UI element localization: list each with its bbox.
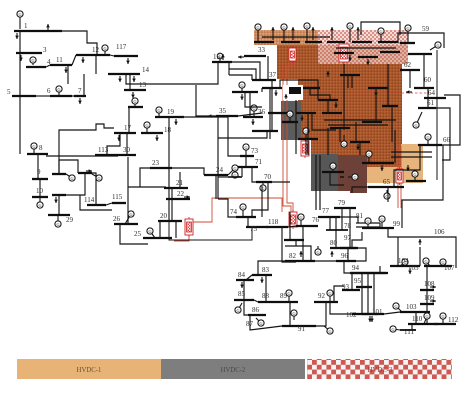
wire 94-101b bbox=[373, 273, 375, 314]
generator bus116 bbox=[315, 246, 321, 255]
HVDC converter box3 bbox=[301, 139, 309, 158]
HVDC zone 1 tan block right bbox=[367, 144, 423, 183]
wire 70-69 bbox=[272, 181, 290, 183]
load bus13 bbox=[131, 92, 135, 98]
svg-text:G: G bbox=[18, 12, 21, 17]
bus 37 bbox=[252, 79, 276, 81]
svg-text:112: 112 bbox=[448, 316, 459, 324]
svg-text:G: G bbox=[157, 108, 160, 113]
wire 109-110 bbox=[426, 304, 428, 324]
bus 47 bbox=[318, 99, 338, 101]
svg-text:G: G bbox=[441, 314, 444, 319]
bus 65 bbox=[368, 186, 404, 188]
wire 7-12 bbox=[83, 74, 85, 96]
svg-text:24: 24 bbox=[216, 166, 224, 174]
bus 118 bbox=[266, 226, 288, 228]
svg-text:G: G bbox=[436, 43, 439, 48]
bus 1 bbox=[14, 30, 40, 32]
svg-text:11: 11 bbox=[56, 56, 63, 64]
load top up bbox=[311, 27, 315, 40]
wire 64b2 bbox=[391, 106, 393, 142]
load 109 r bbox=[430, 299, 436, 303]
svg-text:7: 7 bbox=[78, 87, 82, 95]
wire 4-11 bbox=[46, 65, 50, 67]
wire 56-59 loop bbox=[398, 33, 444, 48]
generator bus72 bbox=[232, 172, 240, 178]
bus 52p bbox=[334, 52, 354, 54]
load bus15 up bbox=[221, 54, 225, 60]
wire 33-37 bbox=[267, 56, 269, 80]
wire 60-61 bbox=[427, 88, 429, 108]
bus tanr bbox=[406, 180, 426, 182]
bus 93 bbox=[342, 289, 360, 291]
wire 31-32 bbox=[59, 160, 78, 174]
svg-text:G: G bbox=[32, 144, 35, 149]
generator g46 bbox=[304, 23, 310, 42]
svg-text:G: G bbox=[414, 123, 417, 128]
svg-text:G: G bbox=[282, 25, 285, 30]
bus 46 bbox=[296, 112, 316, 114]
svg-text:18: 18 bbox=[164, 126, 172, 134]
load bus35 l bbox=[208, 114, 214, 118]
svg-text:6: 6 bbox=[47, 87, 51, 95]
svg-text:103: 103 bbox=[406, 303, 417, 311]
wire 27-28 bbox=[58, 195, 60, 215]
bus 43 bbox=[262, 87, 282, 89]
wire 74 left long bbox=[218, 199, 236, 217]
wire 69-116 via box bbox=[289, 212, 291, 240]
svg-text:HVDC-3: HVDC-3 bbox=[368, 367, 394, 374]
svg-text:15: 15 bbox=[213, 53, 221, 61]
load top up bbox=[291, 27, 295, 40]
load s5 bbox=[326, 71, 330, 77]
svg-text:82: 82 bbox=[289, 252, 297, 260]
wire 11-12 bbox=[72, 55, 76, 65]
bus 22 bbox=[166, 198, 190, 200]
generator g55 bbox=[405, 25, 411, 42]
wire 30-26 v bbox=[127, 187, 129, 224]
svg-text:20: 20 bbox=[160, 212, 168, 220]
wire 17-31 staircase bbox=[59, 124, 114, 174]
bus 113 bbox=[95, 154, 118, 156]
bus 21 bbox=[164, 187, 188, 189]
svg-text:G: G bbox=[133, 99, 136, 104]
load bus84 bbox=[240, 282, 244, 288]
HVDC converter box6 bbox=[396, 167, 403, 185]
wire 35-37 bbox=[238, 113, 262, 116]
svg-text:12: 12 bbox=[92, 46, 100, 54]
load bus102 bbox=[368, 316, 372, 322]
svg-text:G: G bbox=[259, 321, 262, 326]
wire 30-17 bbox=[126, 133, 128, 155]
bus 107 bbox=[424, 265, 452, 267]
bus 38 bbox=[252, 130, 278, 132]
generator bus105 bbox=[423, 258, 430, 266]
bus 34 bbox=[232, 91, 258, 93]
wire 12-117 bbox=[110, 55, 114, 56]
svg-text:25: 25 bbox=[134, 230, 142, 238]
bus 20 bbox=[158, 220, 182, 222]
bus 2 bbox=[40, 30, 62, 32]
svg-text:G: G bbox=[240, 83, 243, 88]
generator bus111 bbox=[390, 326, 400, 332]
svg-text:73: 73 bbox=[251, 147, 259, 155]
svg-text:75: 75 bbox=[250, 225, 258, 233]
wire 2-12 bbox=[58, 31, 97, 55]
svg-text:86: 86 bbox=[252, 306, 260, 314]
generator bus90 bbox=[291, 310, 297, 320]
bus 79 bbox=[334, 207, 356, 209]
bus 14 bbox=[108, 73, 140, 75]
generator bus112 bbox=[440, 313, 446, 324]
generator bus110g bbox=[424, 313, 430, 324]
wire 73 left bbox=[218, 117, 240, 156]
generator bus32 bbox=[92, 174, 102, 181]
bus 102 bbox=[352, 313, 378, 315]
HVDC zone 3 pink checker band bbox=[318, 30, 408, 64]
generator g42 bbox=[281, 24, 287, 42]
wire 98 drop bbox=[344, 261, 352, 273]
wire 115-27 bbox=[80, 195, 112, 210]
load p1 bbox=[348, 55, 352, 61]
wire 34-36 bbox=[249, 92, 251, 117]
svg-text:G: G bbox=[241, 205, 244, 210]
wire 103-110 bbox=[415, 312, 417, 324]
wire 75-118 bbox=[266, 226, 268, 228]
svg-text:G: G bbox=[244, 145, 247, 150]
generator bus6 bbox=[56, 86, 62, 96]
wire 100 drop bbox=[397, 237, 399, 266]
svg-text:14: 14 bbox=[142, 66, 150, 74]
wire 80 double b bbox=[356, 226, 380, 228]
load top up bbox=[356, 27, 360, 40]
svg-text:G: G bbox=[57, 87, 60, 92]
wire 114-115 bbox=[106, 203, 112, 205]
bus 94b bbox=[350, 272, 388, 274]
bus 53 bbox=[340, 74, 360, 76]
wire 26-25 bbox=[120, 224, 148, 244]
bus 16 bbox=[128, 106, 143, 108]
wire 76-118 down bbox=[282, 227, 296, 262]
wire 72-24 long bbox=[218, 176, 228, 178]
wire 69 pair b bbox=[319, 155, 321, 210]
svg-text:36: 36 bbox=[258, 108, 266, 116]
wire 84-85 bbox=[243, 280, 245, 300]
generator bus103 bbox=[393, 303, 402, 312]
wire 35-center bbox=[196, 85, 216, 116]
generator bus65g bbox=[384, 190, 390, 199]
white cutout in sienna bbox=[283, 85, 303, 100]
bus 82 bbox=[285, 260, 315, 262]
svg-text:G: G bbox=[342, 142, 345, 147]
HVDC zone maroon overlap patch bbox=[338, 155, 367, 193]
bus 69 bbox=[322, 171, 344, 173]
bus 92 bbox=[314, 301, 338, 303]
svg-text:114: 114 bbox=[84, 196, 95, 204]
load bus100 bbox=[408, 268, 412, 274]
generator bus8 bbox=[31, 143, 37, 154]
generator bus26 bbox=[125, 211, 134, 224]
wire 34-37 bbox=[245, 92, 262, 107]
bus 88-89 bbox=[258, 301, 298, 303]
wire 20-21 v bbox=[175, 221, 177, 238]
generator bus46 bbox=[303, 128, 309, 142]
wire 64 vert bbox=[394, 130, 396, 163]
legend HVDC-1 tan bbox=[17, 359, 161, 379]
bus 111 bbox=[400, 329, 416, 331]
load s1 bbox=[274, 90, 278, 96]
wire 15-37a bbox=[229, 62, 260, 80]
HVDC zone 2 gray patch B bbox=[311, 154, 338, 191]
wire 65-bottom bbox=[387, 187, 389, 202]
bus 68v bbox=[340, 176, 344, 178]
svg-text:G: G bbox=[379, 29, 382, 34]
generator bus12 bbox=[102, 45, 108, 55]
wire 3-5 bbox=[19, 53, 21, 96]
wire s7 bbox=[375, 88, 377, 122]
svg-text:G: G bbox=[353, 175, 356, 180]
bus 49t bbox=[327, 41, 345, 43]
wire 97-99 bbox=[352, 232, 362, 248]
bus 61 bbox=[418, 107, 436, 109]
wire s5 bbox=[339, 128, 341, 142]
bus 103 bbox=[400, 311, 430, 313]
wire 101-94 bbox=[367, 273, 369, 314]
wire 11-13 down bbox=[67, 65, 69, 84]
wire 61-64 long bbox=[436, 108, 450, 160]
bus 71 bbox=[238, 166, 258, 168]
load 82a up bbox=[299, 251, 303, 257]
bus 10 bbox=[32, 196, 48, 198]
generator bus100 bbox=[400, 259, 408, 266]
bus 55t bbox=[378, 41, 398, 43]
svg-text:5: 5 bbox=[7, 88, 11, 96]
wire 6-7 bbox=[72, 95, 74, 97]
wire 22-20 bbox=[171, 199, 173, 221]
svg-text:33: 33 bbox=[258, 46, 266, 54]
svg-text:G: G bbox=[56, 222, 59, 227]
load top up bbox=[271, 27, 275, 40]
bus 99 bbox=[362, 227, 394, 229]
load bus32 r bbox=[86, 169, 92, 173]
generator bus49 bbox=[341, 135, 347, 147]
bus 90-91 bbox=[282, 325, 316, 327]
bus 94c bbox=[350, 272, 386, 274]
wire 74-75 bbox=[247, 217, 249, 227]
generator bus107 bbox=[440, 259, 446, 266]
wire 82-83 link bbox=[258, 261, 285, 275]
bus 54t bbox=[352, 41, 372, 43]
bus 64 bbox=[424, 97, 446, 99]
wire 1-3 bbox=[19, 31, 21, 53]
svg-text:9: 9 bbox=[37, 168, 41, 176]
red dc wire box6 pair b bbox=[400, 146, 402, 208]
red dc wire box6 pair a bbox=[397, 146, 399, 208]
generator bus91g bbox=[324, 326, 333, 334]
svg-text:G: G bbox=[328, 291, 331, 296]
wire 37-39 bbox=[269, 113, 271, 139]
load top up bbox=[330, 27, 334, 40]
wire 113-17 bbox=[107, 133, 120, 155]
HVDC converter box1 bbox=[289, 46, 296, 63]
bus 6 bbox=[50, 95, 72, 97]
wire s17 bbox=[328, 124, 388, 126]
wire 78-79 bbox=[341, 208, 343, 230]
svg-text:97: 97 bbox=[344, 234, 352, 242]
generator bus19 bbox=[156, 107, 162, 117]
svg-text:117: 117 bbox=[116, 43, 127, 51]
wire band h2 bbox=[336, 47, 396, 49]
svg-text:83: 83 bbox=[262, 266, 270, 274]
svg-text:105: 105 bbox=[408, 264, 419, 272]
svg-text:G: G bbox=[70, 176, 73, 181]
svg-text:91: 91 bbox=[298, 325, 306, 333]
wire 13-15 long bbox=[126, 63, 218, 84]
red dc dashed link top right bbox=[352, 92, 428, 94]
wire 101-103 bbox=[384, 312, 400, 314]
bus 28 bbox=[48, 214, 70, 216]
wire band h1 bbox=[262, 36, 330, 38]
load bus117 bbox=[126, 58, 130, 64]
wire 8-9 bbox=[37, 154, 39, 179]
wire 12-14 bbox=[95, 55, 97, 74]
bus 13 bbox=[124, 89, 146, 91]
bus 95 bbox=[356, 286, 372, 288]
svg-text:81: 81 bbox=[356, 212, 364, 220]
generator bus24 bbox=[228, 165, 238, 175]
svg-text:G: G bbox=[425, 314, 428, 319]
svg-text:3: 3 bbox=[43, 46, 47, 54]
generator g54 bbox=[378, 28, 384, 42]
wire 23-113 long bbox=[140, 168, 150, 187]
wire 19-right long bbox=[184, 117, 218, 199]
svg-text:96: 96 bbox=[341, 252, 349, 260]
svg-text:26: 26 bbox=[113, 215, 121, 223]
generator bus74 bbox=[240, 204, 246, 216]
bus 117 bbox=[114, 55, 138, 57]
generator bus76 bbox=[298, 214, 304, 226]
wire 106 v bbox=[419, 247, 421, 266]
wire 91-92 bbox=[316, 302, 326, 326]
svg-text:G: G bbox=[236, 308, 239, 313]
wire 79-80 bbox=[349, 208, 351, 248]
wire 49-69 bbox=[307, 142, 309, 155]
svg-text:35: 35 bbox=[219, 107, 227, 115]
wire 89-90 bbox=[289, 302, 291, 326]
bus 73 bbox=[240, 155, 254, 157]
bus 53p bbox=[358, 56, 378, 58]
bus 97 bbox=[340, 247, 358, 249]
bus 64L bbox=[362, 162, 394, 164]
svg-text:77: 77 bbox=[322, 207, 330, 215]
wire s13 bbox=[312, 113, 336, 130]
wire s1 bbox=[269, 88, 271, 113]
generator bus18 bbox=[144, 122, 150, 133]
HVDC zone 2 gray patch A bbox=[281, 101, 301, 140]
svg-text:66: 66 bbox=[443, 136, 451, 144]
bus 17 bbox=[114, 132, 136, 134]
svg-text:G: G bbox=[256, 25, 259, 30]
wire s14 bbox=[351, 75, 353, 88]
generator grayA bbox=[287, 111, 293, 121]
wire 14-13 bbox=[129, 74, 131, 90]
generator bus15 bbox=[217, 53, 223, 62]
svg-text:G: G bbox=[348, 24, 351, 29]
svg-text:G: G bbox=[148, 229, 151, 234]
wire 15-down bbox=[228, 62, 230, 75]
red dc wire vertical pair a bbox=[283, 62, 291, 212]
bus 55p bbox=[380, 51, 400, 53]
svg-text:70: 70 bbox=[264, 173, 272, 181]
svg-text:G: G bbox=[233, 166, 236, 171]
wire 70-75 v bbox=[252, 182, 268, 217]
svg-text:G: G bbox=[287, 291, 290, 296]
wire 85-88 bbox=[254, 300, 258, 302]
wire s3 bbox=[307, 113, 309, 142]
bus 100 bbox=[390, 265, 420, 267]
wire 92-93 bbox=[334, 286, 344, 302]
load bus83 bbox=[260, 277, 264, 283]
svg-text:115: 115 bbox=[112, 193, 123, 201]
svg-text:94: 94 bbox=[352, 264, 360, 272]
wire s4 bbox=[327, 100, 329, 113]
bus 3 bbox=[16, 52, 42, 54]
wire s15 bbox=[359, 142, 361, 155]
svg-text:G: G bbox=[145, 123, 148, 128]
wire 25-23 bbox=[159, 221, 161, 238]
svg-text:10: 10 bbox=[36, 187, 44, 195]
wire 24-70 long bbox=[215, 175, 217, 199]
load 108 r bbox=[430, 285, 436, 289]
wire 116-82 bbox=[285, 246, 311, 261]
wire 93-94 bbox=[351, 273, 353, 290]
bus 60 bbox=[414, 87, 434, 89]
generator bus10 bbox=[37, 197, 43, 208]
load 106 up bbox=[418, 239, 422, 245]
svg-text:G: G bbox=[316, 250, 319, 255]
bus 44 bbox=[302, 87, 320, 89]
wire s10 bbox=[280, 80, 318, 100]
bus 9 bbox=[32, 178, 48, 180]
load bus3 bbox=[19, 55, 23, 61]
bus 116 bbox=[284, 239, 304, 241]
svg-text:G: G bbox=[366, 219, 369, 224]
svg-text:G: G bbox=[406, 26, 409, 31]
wire 38-35 bbox=[218, 131, 267, 138]
bus 36 bbox=[243, 116, 263, 118]
wire s6 bbox=[347, 75, 349, 88]
svg-text:G: G bbox=[424, 259, 427, 264]
generator bus29 bbox=[55, 215, 61, 227]
svg-text:84: 84 bbox=[238, 271, 246, 279]
bus 32 bbox=[78, 172, 92, 174]
wire 82-96 bbox=[315, 260, 336, 262]
bus 31 bbox=[52, 173, 66, 175]
svg-text:G: G bbox=[129, 212, 132, 217]
wire s8 bbox=[355, 122, 357, 142]
svg-text:G: G bbox=[292, 311, 295, 316]
wire 69-68 bbox=[330, 172, 344, 185]
wire 71-72 bbox=[241, 167, 243, 177]
svg-text:64: 64 bbox=[428, 89, 436, 97]
red dc wire bottom link bbox=[174, 236, 189, 241]
bus 42 bbox=[305, 41, 322, 43]
bus 52 bbox=[362, 121, 382, 123]
bus 59 bbox=[408, 53, 432, 55]
svg-text:19: 19 bbox=[167, 108, 175, 116]
generator bus4 bbox=[30, 57, 36, 65]
wire 16-17 bbox=[128, 107, 130, 133]
